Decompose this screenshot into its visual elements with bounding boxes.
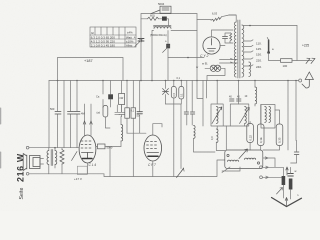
cap arrow [135, 39, 142, 46]
wire [191, 81, 193, 126]
wire [194, 138, 216, 152]
page edge smudges [0, 108, 2, 168]
wire column d [70, 81, 72, 148]
junction dot [54, 147, 56, 149]
wire [132, 81, 134, 177]
wire tube2 bottom [152, 161, 154, 177]
wire [220, 33, 233, 46]
cap j [137, 112, 142, 114]
snubber resistor [230, 33, 232, 41]
wire tube2 left [127, 132, 146, 134]
voltage selector plug [268, 40, 270, 53]
IF transformer T2 frame [230, 104, 249, 126]
cap p [184, 112, 188, 114]
wire [254, 81, 256, 107]
title Seite 216 W [16, 153, 26, 199]
wire column e [102, 81, 104, 108]
mains tap 125 [244, 45, 253, 46]
mains switch box [151, 6, 171, 13]
voltage table [90, 27, 136, 47]
wire [165, 81, 167, 105]
resistor box i [131, 108, 136, 118]
wire ground stem [285, 198, 288, 206]
bus terminal circle [299, 79, 302, 82]
loudspeaker [23, 154, 40, 171]
wire interstage drop [225, 126, 227, 150]
wire column b [57, 81, 59, 148]
arrowhead [83, 121, 86, 124]
chassis ground arrow [272, 198, 302, 207]
wire column j [139, 81, 141, 134]
arrow up [286, 167, 288, 175]
coupling cap d [68, 112, 74, 115]
capacitor block [162, 17, 167, 21]
output transformer primary [47, 151, 49, 165]
snubber cap [223, 37, 228, 39]
field resistor zigzag [60, 150, 64, 165]
coupling cap d2 [74, 112, 80, 115]
IF T2 trim arrow [240, 108, 250, 124]
trimmer caps T2 [230, 99, 242, 101]
terminal TA1 [260, 166, 263, 169]
wire bus left drop [48, 81, 50, 148]
IF T1 trim arrow [212, 107, 222, 124]
T3 coil b [269, 107, 271, 123]
wire [290, 167, 292, 199]
wire [197, 15, 236, 20]
wire mains [269, 60, 312, 62]
output transformer secondary [55, 151, 57, 165]
wire bottom step [104, 160, 225, 177]
mains plug arrows [306, 58, 315, 63]
wire [216, 81, 218, 130]
resistor 60ohm [148, 17, 159, 20]
speaker terminal top [26, 146, 29, 149]
wire [282, 167, 284, 198]
filter choke [154, 25, 172, 28]
small cap right [294, 152, 299, 155]
wire PSU verticals [196, 14, 198, 81]
wire column c [63, 81, 65, 148]
mains tap 150 [244, 51, 253, 52]
mains fuse [281, 59, 293, 63]
filter cap C2 [166, 44, 170, 49]
resistor oval2 [179, 87, 184, 100]
wire [222, 157, 275, 173]
wire [110, 81, 112, 108]
wire tube bottom [87, 163, 89, 174]
pilot lamp a [210, 65, 216, 71]
IF T1 coil [216, 107, 218, 124]
coil r [194, 126, 196, 139]
wire speaker bottom [29, 173, 104, 175]
HT bus wire [49, 80, 299, 82]
wire extra vertical [206, 81, 208, 99]
IF transformer T1 frame [211, 104, 230, 126]
junction dot [187, 57, 189, 59]
arrowhead [181, 168, 184, 172]
wire speaker links [40, 148, 62, 174]
grid coil L1 [121, 125, 123, 142]
wire [167, 31, 169, 81]
paper texture [0, 0, 1, 1]
resistor box g [103, 106, 108, 118]
wire [291, 141, 297, 164]
mains tap 220 [244, 58, 253, 59]
T3 coil a [265, 107, 267, 123]
wire [262, 166, 283, 168]
wire RF links [250, 105, 279, 151]
wire [152, 31, 197, 81]
wire [216, 142, 225, 151]
arrowhead [90, 121, 93, 124]
wire [166, 81, 182, 177]
wire rectifier top [212, 30, 234, 37]
switch on bottom wire [177, 169, 184, 178]
wire [115, 105, 125, 147]
PSU top rail wire [141, 13, 197, 15]
resistor Rb [257, 124, 264, 146]
resistor Rc [276, 124, 283, 146]
wire [262, 176, 283, 178]
wire column d2 [76, 81, 78, 148]
transformer primary winding [234, 22, 236, 77]
transformer secondary winding [242, 25, 244, 77]
IF T1 secondary coil [216, 129, 218, 143]
electrolytic cap E3 [289, 179, 293, 190]
wire [105, 117, 110, 128]
resistor box h [125, 108, 130, 118]
cap E2 bars [288, 174, 294, 177]
node +187 rail [58, 58, 124, 81]
screen rail wire [168, 57, 204, 59]
wire HT riser [296, 26, 298, 61]
filter cap C1 [138, 39, 144, 42]
band switch pack [225, 149, 263, 169]
terminal TA2 [260, 176, 263, 179]
cap arrow2 [163, 45, 170, 52]
screen resistor solid [108, 94, 113, 99]
junction dot [165, 80, 167, 82]
wire tube2 grid top [153, 124, 162, 135]
earth arrow small [277, 188, 283, 195]
osc coil [255, 87, 257, 104]
cathode network loop [77, 166, 87, 174]
mains tap 110 [244, 40, 253, 41]
table text [91, 31, 134, 48]
IF tube CF7 [144, 135, 162, 161]
cap q [190, 112, 194, 114]
pilot lamp b [214, 65, 220, 71]
resistor diag [211, 17, 222, 22]
grid resistor box [98, 144, 106, 149]
electrolytic cap E1 [282, 176, 286, 185]
output transformer core [51, 150, 53, 166]
wire speaker top [29, 147, 79, 149]
wire right risers [288, 81, 296, 151]
bandfilter T3 frame [261, 105, 275, 129]
bus junction dots [57, 80, 59, 82]
transformer core [238, 20, 240, 78]
junction dot [249, 25, 251, 27]
tube V1 lead wire [84, 104, 86, 136]
wire AF drop [109, 146, 111, 176]
heater winding [249, 62, 251, 76]
mains tap 240 [244, 65, 253, 66]
speaker terminal bottom [26, 173, 29, 176]
wire [239, 81, 245, 127]
wire [186, 81, 188, 112]
antenna arrow [302, 72, 313, 88]
tube V1 lead wire2 [90, 104, 92, 136]
coupling cap b2 [55, 112, 61, 115]
switch mark [72, 152, 78, 161]
wire transformer top [229, 15, 297, 26]
wire [121, 81, 123, 113]
output tube CL4 [79, 135, 96, 163]
wire [141, 14, 169, 26]
wire [126, 81, 128, 134]
wire [180, 81, 182, 105]
resistor box f [119, 94, 125, 105]
wire lamp [205, 68, 225, 80]
rectifier tube CY2 [203, 37, 220, 54]
wire [186, 114, 188, 125]
resistor oval [171, 87, 176, 99]
heater wires [220, 59, 238, 64]
wire [96, 145, 121, 147]
wire psu right vertical below bus [197, 81, 203, 127]
resistor Ra [247, 124, 254, 143]
IF T2 coil [245, 107, 247, 124]
junction dot [173, 80, 175, 82]
crossed cap symbol [163, 89, 169, 95]
wire [140, 19, 142, 81]
